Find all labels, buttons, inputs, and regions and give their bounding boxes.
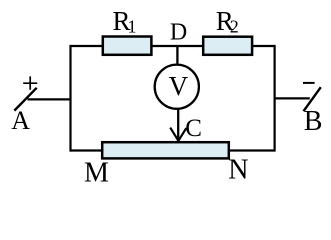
rheostat MN (slide-wire resistor) <box>102 142 229 158</box>
svg-text:V: V <box>169 71 189 101</box>
svg-text:M: M <box>84 157 109 188</box>
svg-text:N: N <box>228 155 248 186</box>
wire A to left rail <box>28 98 71 100</box>
wire voltmeter to slider <box>177 109 179 140</box>
svg-text:C: C <box>185 115 202 142</box>
wire bottom rail <box>71 149 275 151</box>
minus sign at B <box>303 82 315 84</box>
voltmeter V (circle body) <box>155 65 199 109</box>
wire top (D node rail) <box>71 45 275 47</box>
wire right rail to B <box>275 97 310 99</box>
plus sign at A <box>23 76 37 89</box>
resistor R1 <box>103 37 152 55</box>
terminal B lead (diagonal) <box>304 87 321 111</box>
svg-text:A: A <box>11 106 30 135</box>
svg-text:D: D <box>170 20 187 46</box>
wire D to voltmeter <box>176 46 178 66</box>
wire right vertical <box>274 45 276 152</box>
terminal A lead (diagonal) <box>14 88 36 111</box>
wire left vertical <box>69 45 71 152</box>
resistor R2 <box>203 37 252 55</box>
slider arrow head at C <box>170 128 186 141</box>
svg-text:B: B <box>304 106 323 137</box>
